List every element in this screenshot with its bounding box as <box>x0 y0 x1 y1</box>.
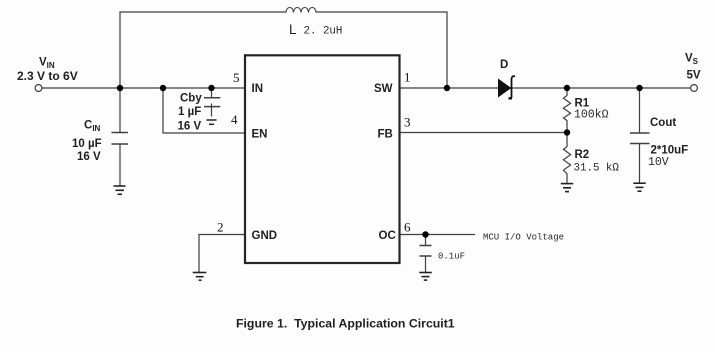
wire VIN terminal to IN pin <box>42 87 245 89</box>
svg-text:3: 3 <box>404 115 411 130</box>
svg-text:Cout: Cout <box>650 117 676 129</box>
svg-text:10 µF: 10 µF <box>72 138 102 150</box>
wire GND pin to ground <box>199 235 245 273</box>
node OC junction <box>422 231 428 237</box>
svg-text:5: 5 <box>233 70 240 85</box>
node Cby junction <box>208 85 214 91</box>
ground (Cout) <box>633 183 645 191</box>
svg-text:L: L <box>289 22 297 37</box>
svg-text:CIN: CIN <box>84 120 101 134</box>
svg-text:Cby: Cby <box>180 93 202 105</box>
capacitor Cby <box>204 88 220 117</box>
node VIN terminal <box>35 85 42 92</box>
ground (Cby) <box>207 120 217 124</box>
capacitor Cout <box>630 88 650 183</box>
node VS terminal <box>691 85 698 92</box>
svg-text:100kΩ: 100kΩ <box>574 109 609 122</box>
wire FB pin to divider tap <box>400 132 567 134</box>
svg-text:5V: 5V <box>687 70 701 82</box>
resistor R2 <box>563 133 570 183</box>
svg-text:1: 1 <box>404 70 411 85</box>
op IC U1 box <box>245 55 400 263</box>
svg-text:GND: GND <box>252 230 278 242</box>
svg-text:2. 2uH: 2. 2uH <box>304 26 343 38</box>
node R1 top junction <box>564 85 570 91</box>
node input junction <box>117 85 123 91</box>
svg-text:2.3 V to 6V: 2.3 V to 6V <box>17 69 78 83</box>
svg-text:SW: SW <box>374 83 393 95</box>
svg-text:OC: OC <box>379 230 396 242</box>
inductor L coil <box>286 8 316 13</box>
node SW junction <box>444 85 450 91</box>
svg-text:IN: IN <box>252 83 264 95</box>
svg-text:4: 4 <box>231 112 238 127</box>
node Cout junction <box>636 85 642 91</box>
svg-text:2: 2 <box>217 220 224 235</box>
wire top loop from input node to SW node <box>120 12 286 88</box>
wire OC pin to MCU I/O <box>400 234 475 236</box>
svg-text:1 µF: 1 µF <box>178 106 201 118</box>
resistor R1 <box>563 88 570 133</box>
diode D (schottky) <box>499 76 516 98</box>
svg-text:16 V: 16 V <box>178 121 202 133</box>
svg-text:16 V: 16 V <box>77 151 101 163</box>
svg-text:0.1uF: 0.1uF <box>438 252 465 262</box>
svg-text:10V: 10V <box>648 156 669 169</box>
ground (GND pin) <box>193 273 207 281</box>
svg-text:MCU I/O Voltage: MCU I/O Voltage <box>483 233 564 243</box>
svg-text:31.5 kΩ: 31.5 kΩ <box>574 163 620 175</box>
svg-text:Figure 1. Typical Application: Figure 1. Typical Application Circuit1 <box>236 317 455 331</box>
svg-text:D: D <box>500 59 508 71</box>
ground (R2) <box>561 184 573 192</box>
svg-text:2*10uF: 2*10uF <box>651 145 689 157</box>
capacitor CIN <box>112 88 129 186</box>
svg-text:VIN: VIN <box>39 57 55 71</box>
capacitor C 0.1uF <box>420 235 432 273</box>
svg-text:6: 6 <box>404 220 411 235</box>
wire SW pin to VS terminal <box>400 87 691 89</box>
node EN branch junction <box>160 85 166 91</box>
ground (CIN) <box>114 186 126 194</box>
svg-text:FB: FB <box>378 129 393 141</box>
wire EN branch <box>163 88 245 133</box>
ground (0.1uF) <box>419 273 432 281</box>
svg-text:VS: VS <box>685 53 699 67</box>
svg-text:R2: R2 <box>575 149 590 161</box>
svg-text:EN: EN <box>252 129 268 141</box>
node FB tap junction <box>564 129 570 135</box>
